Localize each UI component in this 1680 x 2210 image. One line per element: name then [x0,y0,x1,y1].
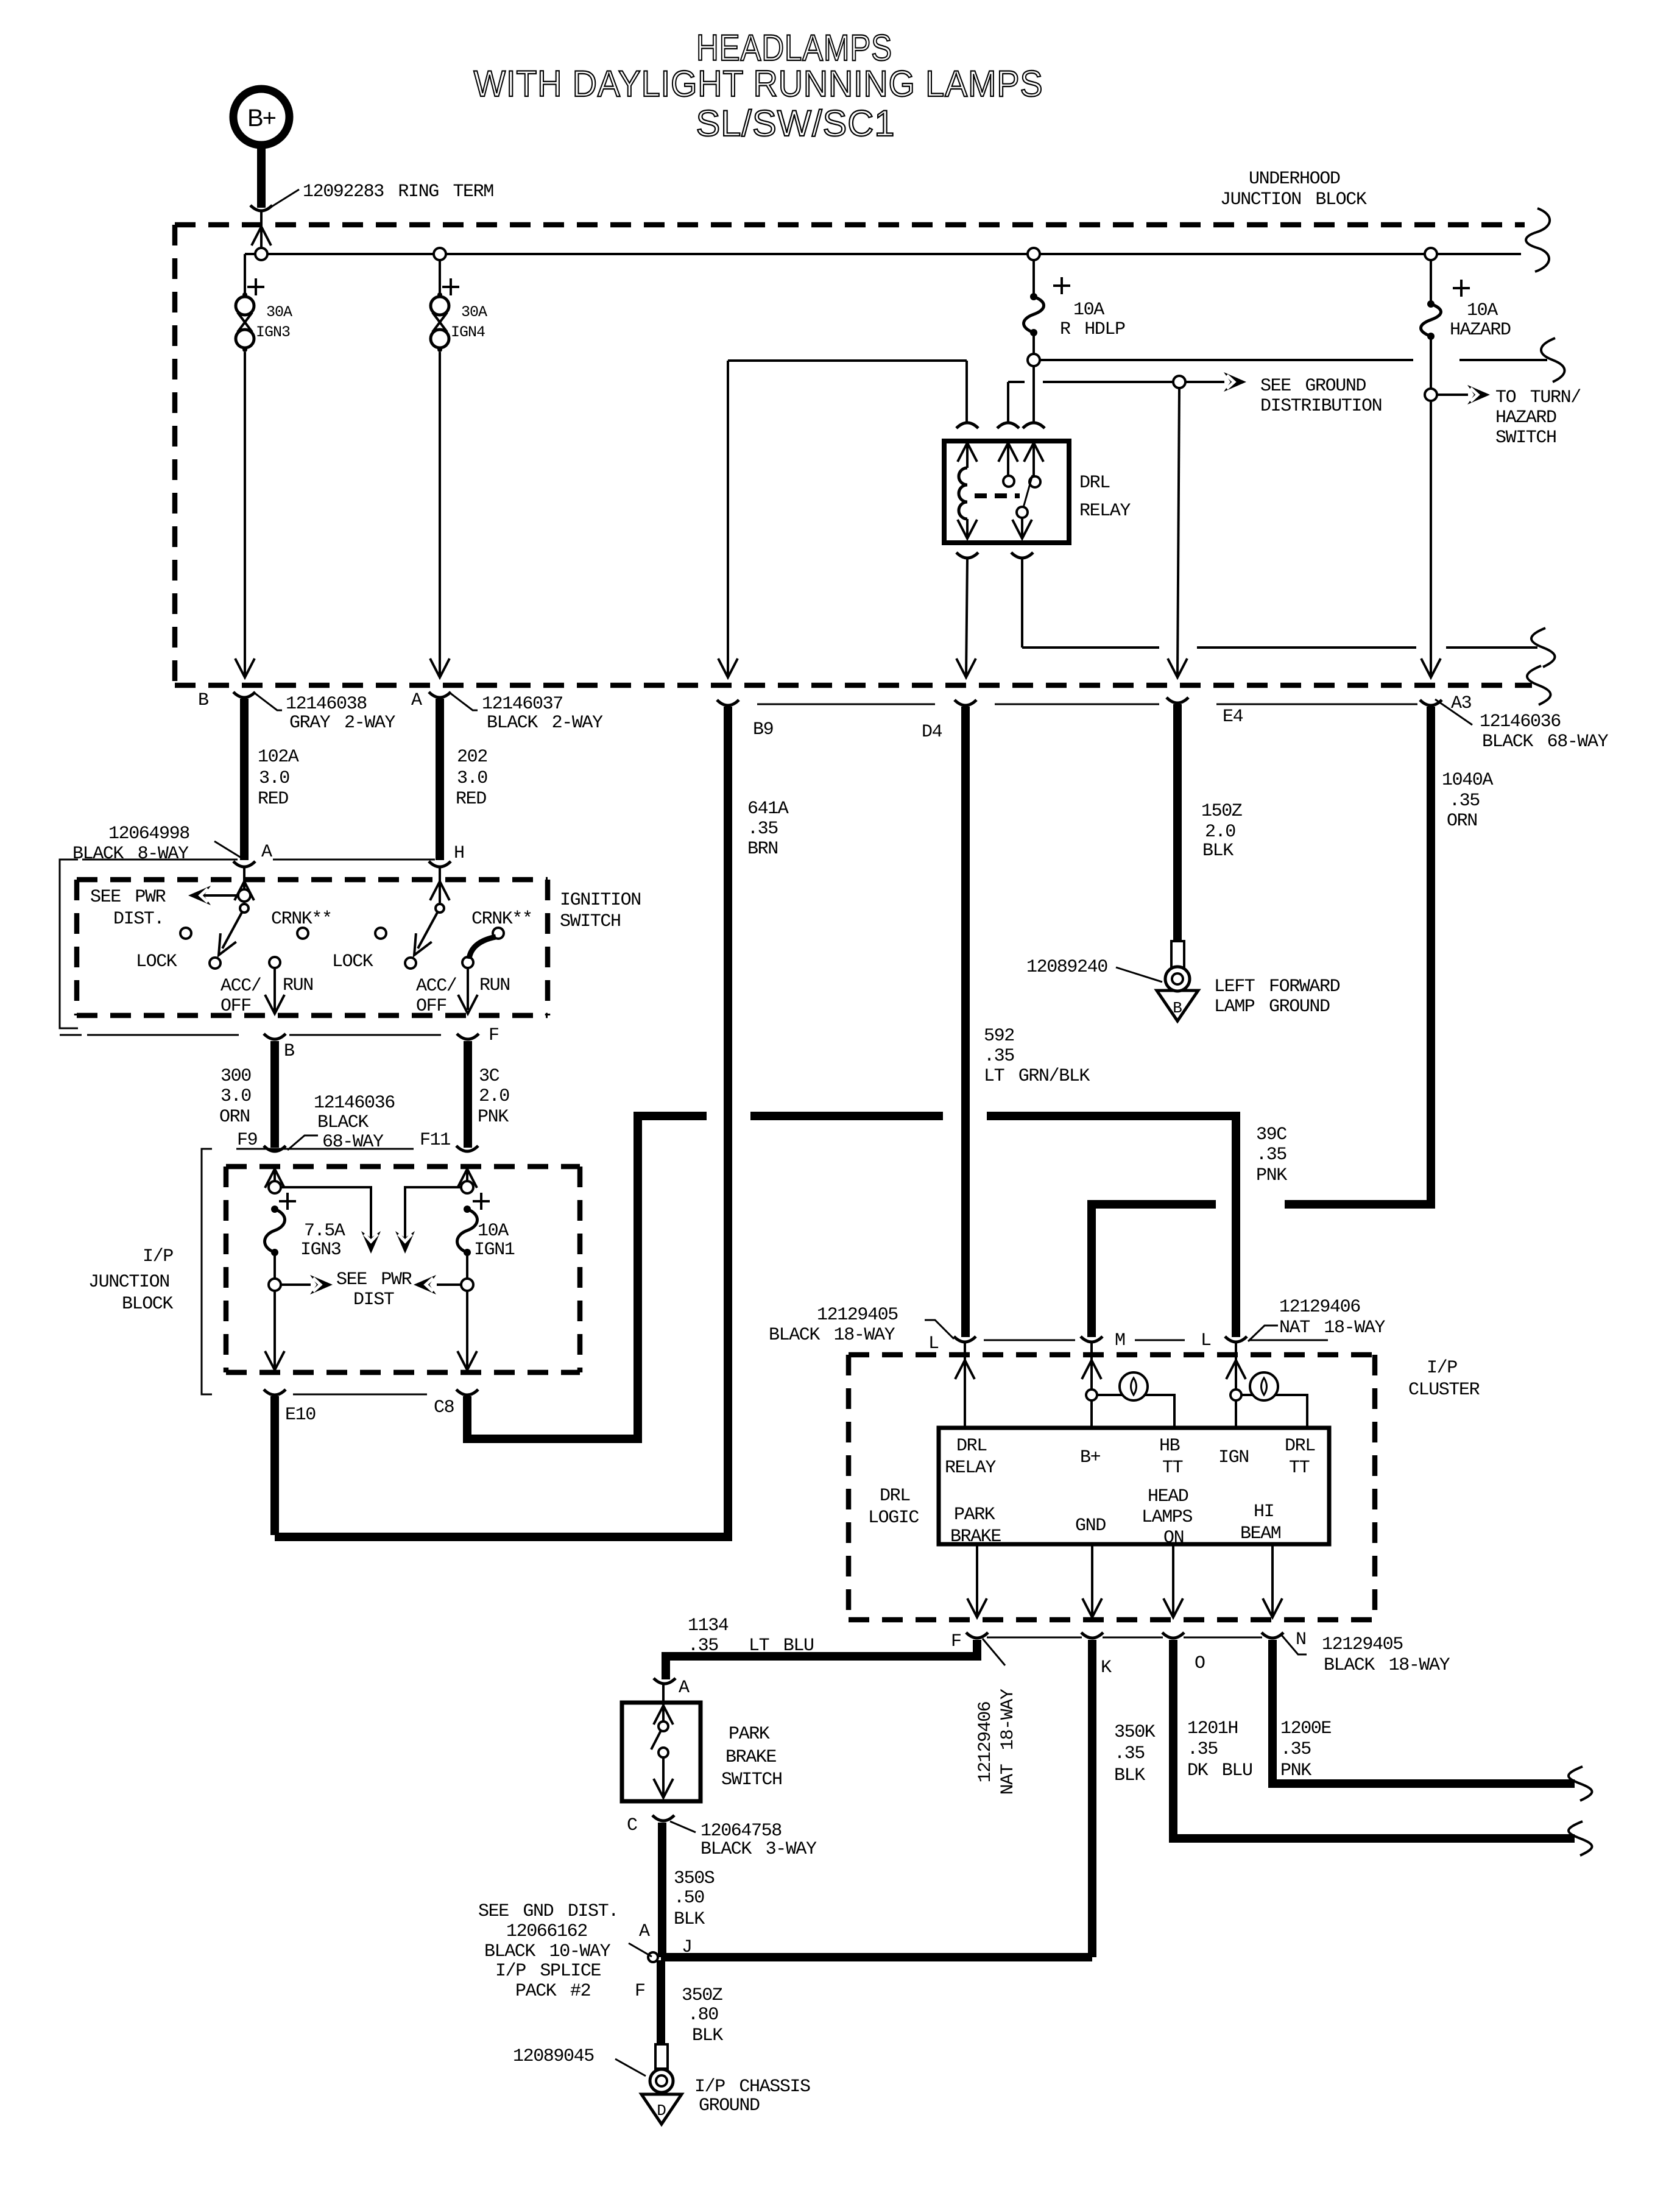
svg-text:C8: C8 [434,1397,454,1418]
face line cluster bottom 2 [1103,1637,1163,1639]
svg-text:RUN: RUN [283,975,313,996]
leader 12064998 [214,841,243,859]
svg-text:RED: RED [258,789,288,810]
wire 39C horizontal 1 [634,1112,707,1120]
clamp ignition F [457,1034,479,1039]
svg-text:DK BLU: DK BLU [1187,1760,1252,1781]
wire 39C riser [1232,1120,1240,1337]
svg-text:PNK: PNK [478,1107,509,1128]
wire 350K horizontal [661,1953,1092,1961]
wire IGN1 to C8 [466,1291,468,1368]
relay contact mid [1003,476,1014,487]
clamp connector A3 [1420,700,1442,705]
svg-text:.35: .35 [1280,1739,1311,1760]
ground triangle B [1157,990,1198,1021]
svg-text:IGN3: IGN3 [300,1240,341,1260]
svg-text:E4: E4 [1223,707,1243,727]
arrow at connector D4 [956,658,976,677]
svg-text:150Z: 150Z [1201,801,1242,822]
svg-text:DRL: DRL [1079,473,1110,493]
svg-text:GND: GND [1075,1516,1106,1536]
svg-text:SL/SW/SC1: SL/SW/SC1 [696,103,895,144]
leader 12129405 L [925,1320,954,1339]
clamp relay common bottom [1011,552,1033,558]
wire M to B+ pin [1090,1343,1093,1428]
svg-text:I/P CHASSIS: I/P CHASSIS [694,2077,810,2097]
wire 39C horizontal 3 [987,1112,1240,1120]
park brake contact bottom [658,1748,668,1757]
clamp F11 [456,1146,478,1151]
break squiggle 1200E [1569,1767,1592,1801]
svg-text:B+: B+ [247,105,276,132]
fuse 10A R HDLP [1030,293,1037,300]
svg-text:BLACK 3-WAY: BLACK 3-WAY [701,1839,817,1860]
wire HEADLAMPS ON out [1172,1544,1174,1615]
node hazard branch [1425,389,1437,401]
relay contact right [1029,476,1040,487]
svg-text:CLUSTER: CLUSTER [1408,1380,1480,1400]
ignition pivot right [436,904,444,913]
lamp HB telltale [1120,1372,1148,1400]
wire fuse IGN3 to connector B [244,352,246,676]
leader 12129406 F rotated [983,1639,1005,1665]
face line B9 to D4 [757,704,935,705]
face line ignition bottom stub [60,1034,82,1036]
wire park brake entry [662,1685,665,1721]
leader 12129405 N [1280,1634,1307,1654]
svg-text:D4: D4 [922,722,942,743]
arrow into junction block [252,227,271,245]
wire to turn hazard switch [1437,394,1468,396]
wire E10 out [270,1396,279,1535]
svg-text:3.0: 3.0 [259,768,289,789]
leader 12066162 [629,1943,652,1957]
svg-text:DRL: DRL [880,1486,910,1506]
svg-text:350S: 350S [674,1868,715,1889]
svg-text:SEE PWR: SEE PWR [90,887,166,908]
svg-text:SWITCH: SWITCH [721,1770,782,1790]
svg-text:DIST.: DIST. [113,909,164,930]
plus fuse IGN3 [247,286,264,288]
svg-text:350K: 350K [1114,1722,1156,1743]
svg-text:BLACK 18-WAY: BLACK 18-WAY [1324,1655,1450,1676]
svg-text:DRL: DRL [956,1436,987,1456]
svg-text:SEE GROUND: SEE GROUND [1260,376,1366,397]
clamp connector D4 [955,700,976,705]
arrow relay right pin [1024,443,1043,462]
face line cluster bottom 1 [987,1637,1082,1639]
wire HB TT branch [1096,1395,1174,1428]
svg-text:ORN: ORN [1447,811,1477,831]
svg-text:K: K [1101,1657,1112,1678]
clamp connector A [429,692,451,697]
arrow at connector B [235,658,255,677]
wire fuse to node IGN1 [466,1255,468,1279]
wire see pwr dist left [201,894,238,897]
relay switch lever [1023,475,1032,507]
svg-text:BLK: BLK [692,2025,723,2046]
svg-text:BLK: BLK [1114,1765,1145,1786]
arrow to turn hazard switch [1467,385,1490,404]
svg-text:B: B [198,690,208,711]
clamp cluster L black [954,1336,976,1342]
svg-text:I/P: I/P [1427,1358,1457,1379]
node ground distribution [1173,376,1185,388]
face line IP JB bottom [293,1394,427,1396]
svg-text:39C: 39C [1256,1124,1286,1145]
svg-text:A: A [639,1921,650,1942]
face line E4 to A3 [1216,704,1417,705]
arrow F11 entry [457,1169,477,1188]
wire relay common right 2 [1197,646,1416,649]
wire 150Z E4 [1173,704,1182,942]
svg-text:BLK: BLK [1202,841,1234,861]
wire HI BEAM out [1271,1544,1274,1615]
ignition wiper right [418,913,437,948]
plus fuse IGN4 [442,286,459,288]
wire F11 entry [466,1169,468,1181]
wire GND out [1091,1544,1093,1615]
clamp relay coil bottom [956,552,978,558]
wire coil feed horizontal [728,359,967,362]
svg-text:3C: 3C [479,1066,499,1087]
svg-text:ACC/: ACC/ [416,976,457,997]
wire R HDLP node to relay pin [1032,366,1035,422]
svg-text:L: L [928,1333,939,1354]
svg-text:.50: .50 [674,1888,704,1908]
bracket IP JB left [202,1149,212,1394]
wire park brake out [662,1757,665,1796]
contact ACC/OFF left [210,958,221,969]
wire 102A [240,699,249,860]
face line ignition top left [82,859,238,861]
arrow E10 out [265,1351,284,1370]
svg-text:BLACK 68-WAY: BLACK 68-WAY [1482,732,1609,752]
wire 350S [658,1823,666,1957]
svg-text:LOGIC: LOGIC [868,1508,919,1528]
svg-text:B: B [1173,999,1182,1017]
svg-text:.35: .35 [747,819,778,839]
svg-text:TT: TT [1162,1458,1183,1478]
break squiggle top right corner [1526,208,1550,272]
svg-text:1040A: 1040A [1442,770,1493,791]
arrow relay common out [1012,520,1032,538]
svg-text:IGN1: IGN1 [474,1240,515,1260]
ignition engaged contact arc [469,937,496,959]
arrow at connector B9 [718,658,738,677]
clamp cluster K [1081,1633,1103,1638]
wire 1040A left part [1092,1204,1216,1337]
svg-text:B+: B+ [1080,1447,1101,1468]
svg-text:D: D [657,2102,666,2120]
wire ign1 branch left [405,1187,461,1250]
svg-text:NAT 18-WAY: NAT 18-WAY [1279,1318,1385,1338]
chassis ground stem [655,2044,668,2069]
svg-text:1200E: 1200E [1280,1718,1331,1739]
arrow at connector A3 [1421,658,1441,677]
plus fuse 7.5A [279,1200,296,1202]
face line D4 to E4 [995,704,1159,705]
clamp C8 [456,1389,478,1395]
relay coil [959,468,967,519]
wire 350Z [657,1960,665,2045]
wire 1040A A3 [1285,707,1431,1204]
break squiggle relay common [1531,628,1555,667]
wire coil feed drop [965,361,968,422]
face line cluster top 3 [1250,1340,1328,1341]
fuse 10A IGN1 [464,1206,471,1213]
wire 1201H [1173,1640,1575,1838]
splice node J [648,1952,658,1962]
svg-text:3.0: 3.0 [221,1086,251,1107]
clamp relay pin right top [1023,423,1045,428]
wire B+ stem [257,145,266,208]
node IGN1 top [461,1181,473,1193]
svg-text:RED: RED [456,789,486,810]
svg-text:L: L [1201,1330,1211,1351]
clamp ignition A [233,861,255,867]
wire 1134 [666,1640,977,1679]
ignition pivot left [240,904,249,913]
arrow O out [1163,1598,1183,1617]
svg-text:F9: F9 [237,1130,257,1151]
fuse 7.5A IGN3 [271,1206,278,1213]
svg-text:12089240: 12089240 [1026,957,1107,978]
svg-text:F: F [635,1981,645,2002]
arrow ignition H entry [430,881,450,900]
svg-text:HB: HB [1159,1436,1180,1456]
leader 12129406 NAT [1248,1326,1278,1341]
svg-text:12064758: 12064758 [701,1821,782,1841]
relay right pin wire [1032,441,1035,476]
wire fuse R HDLP to node [1032,335,1035,354]
leader 12146036 IP [288,1135,318,1150]
arrow relay mid pin [998,443,1018,462]
wire ignition H entry [439,868,441,903]
svg-text:10A: 10A [478,1221,509,1241]
svg-text:30A: 30A [266,303,292,321]
svg-text:PNK: PNK [1280,1760,1311,1781]
node IGN1 bottom [461,1279,473,1291]
clamp connector E4 [1166,697,1188,703]
svg-text:12146038: 12146038 [286,694,367,715]
arrow K out [1082,1598,1102,1617]
svg-text:12129405: 12129405 [817,1305,898,1326]
wire fuse HAZARD to node [1430,339,1432,389]
node bus B+ [255,248,267,260]
clamp relay pin mid top [997,423,1019,428]
wire relay mid pin drop [1007,382,1009,422]
svg-text:12129405: 12129405 [1322,1634,1403,1655]
svg-text:.35: .35 [688,1636,718,1656]
ip cluster dashed box [849,1352,1375,1358]
svg-text:BLOCK: BLOCK [122,1294,173,1315]
svg-text:RELAY: RELAY [1079,501,1131,521]
break squiggle bottom dashed [1527,666,1551,705]
svg-text:12146036: 12146036 [1480,711,1561,732]
leader ring term [270,189,299,208]
svg-text:PNK: PNK [1256,1165,1287,1186]
ignition wiper left [222,913,242,948]
wire relay common right 3 [1446,646,1537,649]
wire bus B+ distribution [245,253,1521,255]
contact LOCK left [180,928,191,939]
svg-text:641A: 641A [747,799,789,819]
arrow M entry [1082,1360,1101,1379]
contact ACC/OFF right [405,958,416,969]
svg-text:TT: TT [1289,1458,1310,1478]
wire hazard to connector A3 [1430,401,1432,676]
node bus R HDLP tap [1028,248,1040,260]
face line ignition bottom right [289,1034,441,1036]
svg-text:2.0: 2.0 [479,1086,509,1107]
underhood junction block dashed border bottom [175,683,1532,688]
svg-text:12146036: 12146036 [314,1093,395,1114]
wire 300 ORN [270,1041,279,1148]
svg-text:SEE GND DIST.: SEE GND DIST. [478,1901,618,1922]
svg-text:HEADLAMPS: HEADLAMPS [696,27,892,68]
svg-text:SWITCH: SWITCH [1495,428,1556,448]
svg-text:1201H: 1201H [1187,1718,1238,1739]
svg-text:DRL: DRL [1285,1436,1315,1456]
face line ignition bottom left [87,1034,239,1036]
svg-text:LT GRN/BLK: LT GRN/BLK [984,1066,1090,1087]
contact CRNK left [297,928,308,939]
svg-text:A3: A3 [1451,693,1472,714]
svg-text:E10: E10 [285,1405,316,1425]
svg-text:12064998: 12064998 [108,824,189,844]
wire fuse to node IGN3 [274,1255,276,1279]
wire see ground distribution arrow [1185,381,1224,383]
wire relay coil to D4 [966,559,967,676]
node bus HAZARD tap [1425,248,1437,260]
arrow park brake out [654,1779,673,1798]
svg-text:HAZARD: HAZARD [1495,408,1556,428]
svg-text:HI: HI [1254,1502,1274,1522]
park brake lever [651,1731,661,1749]
svg-text:ACC/: ACC/ [221,976,261,997]
face line ignition top right [273,859,435,861]
leader 12089045 [615,2059,646,2076]
drl logic box [939,1428,1329,1544]
ignition switch dashed box [77,877,548,883]
clamp E10 [264,1389,286,1395]
leader 12064758 [670,1821,696,1832]
svg-text:12146037: 12146037 [482,694,563,715]
relay coil-contact dashed link [975,493,1020,498]
arrow at connector A [430,658,450,677]
svg-text:102A: 102A [258,747,299,768]
wire fuse IGN4 to connector A [439,352,441,676]
svg-text:1134: 1134 [688,1615,729,1636]
svg-text:GROUND: GROUND [699,2095,760,2116]
node HB TT tap [1086,1389,1097,1400]
svg-text:LAMP GROUND: LAMP GROUND [1214,997,1330,1017]
leader 12146036 A3 [1435,699,1472,725]
arrow ign3 branch down [361,1231,381,1254]
wire C8 39C [467,1116,638,1439]
clamp cluster O [1162,1633,1184,1638]
svg-text:SWITCH: SWITCH [560,911,621,932]
wire R HDLP branch right [1040,359,1413,361]
wire node to connector E4 [1177,388,1179,676]
battery B+ terminal [233,89,289,145]
arrow relay coil pin [958,443,977,462]
svg-text:.35: .35 [1187,1739,1218,1760]
wire 39C horizontal 2 [750,1112,943,1120]
node IGN3 bottom [269,1279,281,1291]
svg-text:I/P SPLICE: I/P SPLICE [495,1961,601,1982]
break squiggle 1201H [1569,1821,1592,1855]
arrow Lnat entry [1226,1360,1246,1379]
svg-text:10A: 10A [1073,300,1104,320]
svg-text:12066162: 12066162 [506,1921,587,1942]
arrow see pwr dist (ign3) [310,1275,333,1294]
arrow at connector E4 [1168,658,1187,677]
svg-text:UNDERHOOD: UNDERHOOD [1249,169,1340,189]
svg-text:OFF: OFF [416,996,446,1017]
svg-text:7.5A: 7.5A [304,1221,345,1241]
fuse 30A IGN3 [242,292,247,297]
svg-text:GRAY 2-WAY: GRAY 2-WAY [289,713,395,733]
wire DRL TT branch [1241,1395,1307,1428]
svg-text:B: B [284,1041,294,1062]
arrow park brake entry [654,1706,673,1725]
node IGN3 top [269,1181,281,1193]
svg-text:PACK #2: PACK #2 [515,1981,590,2002]
wire 641A vertical [275,707,728,1537]
node DRL TT tap [1230,1389,1241,1400]
contact CRNK right [493,928,504,939]
arrow F9 entry [265,1169,284,1188]
wire Lnat to IGN pin [1235,1343,1237,1428]
svg-text:.35: .35 [1256,1145,1286,1165]
svg-text:BEAM: BEAM [1240,1523,1281,1544]
wire ground distribution [1043,381,1173,383]
svg-text:BLACK 18-WAY: BLACK 18-WAY [769,1325,895,1346]
svg-text:IGNITION: IGNITION [560,890,641,911]
wire 592 D4 [961,707,970,1337]
clamp cluster M [1081,1336,1103,1342]
svg-text:OFF: OFF [221,996,251,1017]
svg-text:BLACK 2-WAY: BLACK 2-WAY [487,713,603,733]
svg-text:.35: .35 [984,1046,1014,1067]
wire relay mid pin feed [1008,381,1025,383]
arrow ign1 branch down [395,1231,415,1254]
svg-text:.35: .35 [1114,1743,1145,1764]
wire 1200E [1272,1640,1575,1784]
wire ignition RUN right out [467,968,469,1010]
arrow relay coil out [958,520,977,538]
wire see pwr dist left arrow [437,1283,461,1286]
clamp park brake A [654,1678,676,1684]
contact LOCK right [375,928,386,939]
svg-text:LEFT FORWARD: LEFT FORWARD [1214,976,1340,997]
svg-text:202: 202 [457,747,487,768]
wire relay common right [1022,646,1159,649]
svg-text:2.0: 2.0 [1205,822,1235,842]
svg-text:WITH DAYLIGHT RUNNING LAMPS: WITH DAYLIGHT RUNNING LAMPS [474,63,1043,104]
node R HDLP branch [1028,354,1040,366]
svg-text:PARK: PARK [729,1724,770,1745]
clamp ignition B [264,1034,286,1039]
arrow see ground distribution [1224,372,1246,392]
arrow C8 out [457,1351,477,1370]
wire F9 entry [274,1169,276,1181]
svg-text:LT BLU: LT BLU [749,1636,814,1656]
svg-text:12092283 RING TERM: 12092283 RING TERM [303,182,493,202]
svg-text:NAT 18-WAY: NAT 18-WAY [998,1689,1018,1795]
